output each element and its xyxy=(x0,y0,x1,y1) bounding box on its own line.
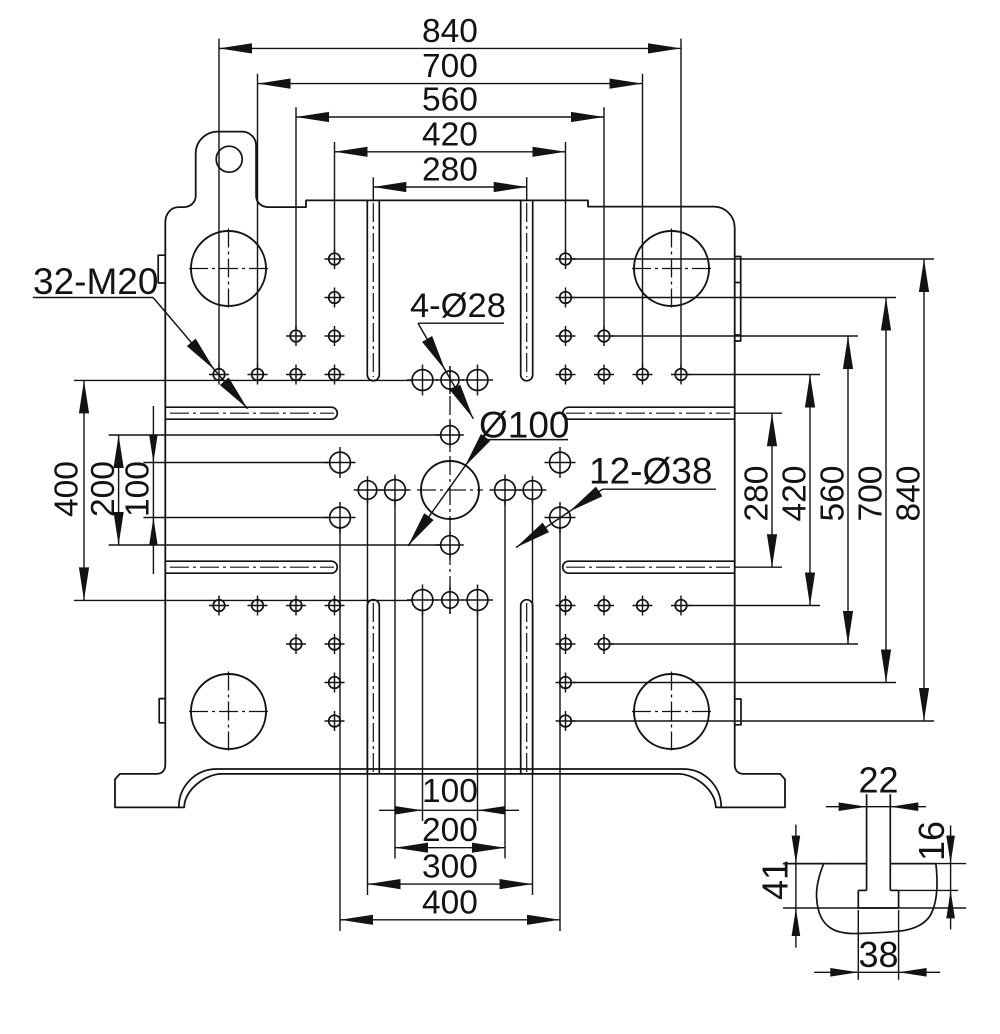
svg-text:300: 300 xyxy=(422,849,478,886)
svg-text:280: 280 xyxy=(422,152,478,189)
svg-text:22: 22 xyxy=(858,760,898,801)
svg-text:400: 400 xyxy=(422,884,478,921)
svg-text:16: 16 xyxy=(911,821,952,861)
svg-text:280: 280 xyxy=(739,466,776,522)
svg-text:200: 200 xyxy=(422,812,478,849)
svg-text:420: 420 xyxy=(422,116,478,153)
svg-text:32-M20: 32-M20 xyxy=(33,261,158,302)
svg-text:560: 560 xyxy=(815,466,852,522)
svg-text:4-Ø28: 4-Ø28 xyxy=(410,287,506,325)
svg-text:100: 100 xyxy=(120,461,157,517)
svg-text:840: 840 xyxy=(422,13,478,50)
svg-text:400: 400 xyxy=(49,461,86,517)
svg-text:700: 700 xyxy=(853,466,890,522)
svg-text:420: 420 xyxy=(777,466,814,522)
svg-text:840: 840 xyxy=(891,466,928,522)
svg-text:41: 41 xyxy=(755,860,796,900)
svg-text:700: 700 xyxy=(422,48,478,85)
svg-text:38: 38 xyxy=(858,934,898,975)
svg-text:560: 560 xyxy=(422,82,478,119)
svg-text:12-Ø38: 12-Ø38 xyxy=(589,451,712,492)
svg-text:200: 200 xyxy=(85,461,122,517)
svg-text:100: 100 xyxy=(422,773,478,810)
